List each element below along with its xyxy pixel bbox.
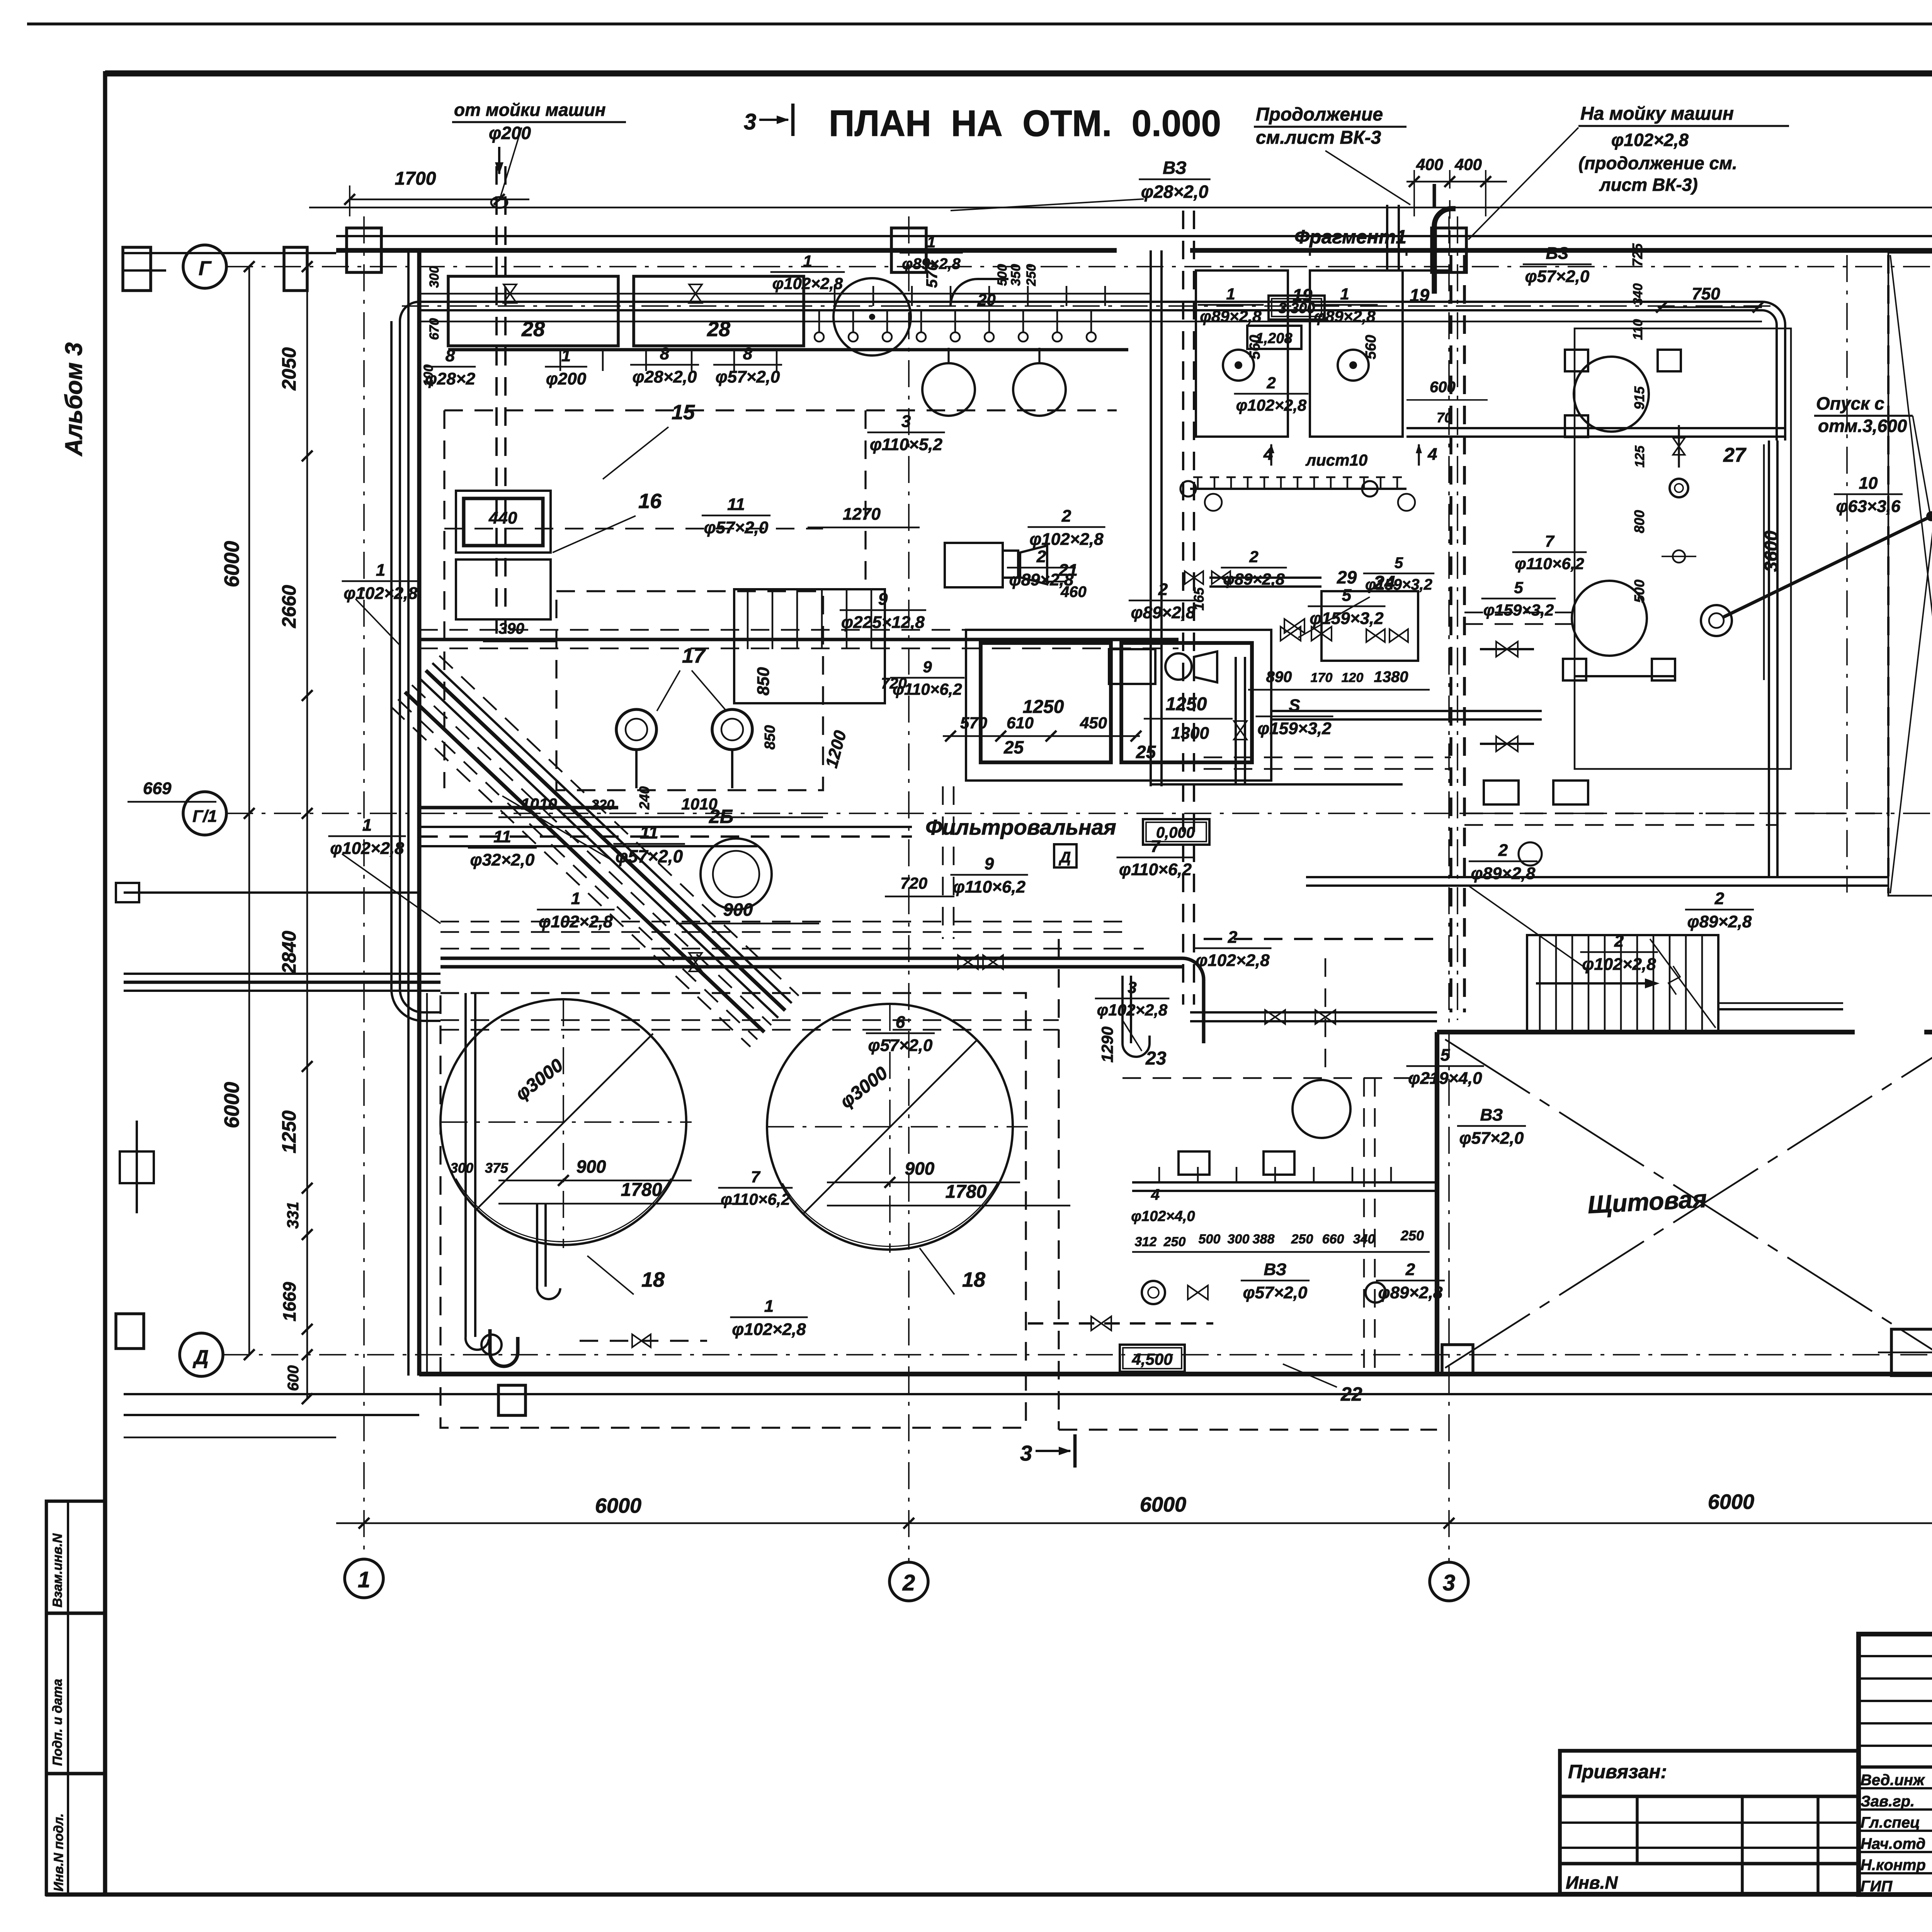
pipe left elbow down (400, 302, 419, 425)
svg-text:388: 388 (1253, 1232, 1275, 1247)
gate band X (1890, 255, 1932, 893)
fragment trench dashed pair (1449, 255, 1452, 1012)
shchitovaya X diagonal b (1445, 1039, 1932, 1368)
vertical drop x4600 (1768, 440, 1770, 877)
tank 18 right circle (767, 1004, 1013, 1250)
vessel pair below pipe (922, 363, 975, 416)
hook row under pipe (818, 310, 820, 332)
air vessel circle top (833, 278, 911, 355)
svg-text:5: 5 (1514, 578, 1523, 597)
svg-text:7: 7 (1545, 532, 1554, 550)
mid vertical pipes pair a (1150, 250, 1152, 786)
svg-text:1: 1 (571, 889, 580, 908)
title block left rows (1859, 1655, 1932, 1657)
tank 18 left centerlines (440, 1121, 692, 1123)
svg-text:6: 6 (896, 1013, 905, 1032)
svg-text:2: 2 (1228, 928, 1238, 947)
pipe drop left vertical (464, 993, 467, 1337)
svg-text:4: 4 (1427, 445, 1437, 464)
pipe run y2270 right (1306, 876, 1888, 878)
svg-text:25: 25 (1003, 737, 1024, 757)
svg-text:Взам.инв.N: Взам.инв.N (50, 1533, 65, 1607)
drain circle 17 b (712, 709, 752, 750)
svg-text:Инв.N подл.: Инв.N подл. (51, 1813, 66, 1891)
main frame top thick (105, 70, 1932, 77)
svg-text:φ89×2,8: φ89×2,8 (902, 255, 961, 272)
boxed 0.000 mark (1143, 819, 1209, 845)
valve row right of filter (1185, 571, 1203, 584)
dashed runs above tanks extra (440, 921, 1122, 923)
pipe run above tanks (440, 957, 1182, 960)
tank room dashed boundary (440, 993, 1026, 1428)
svg-text:φ110×6,2: φ110×6,2 (1119, 860, 1192, 879)
svg-text:φ89×2,8: φ89×2,8 (1223, 570, 1285, 588)
thick diagonal pipe (1723, 516, 1931, 617)
svg-text:6000: 6000 (595, 1494, 641, 1517)
svg-text:2Б: 2Б (709, 806, 733, 827)
svg-text:φ102×2,8: φ102×2,8 (772, 274, 843, 293)
small circles bottom pipes (1142, 1281, 1165, 1304)
equip box lower (456, 560, 551, 619)
svg-text:669: 669 (143, 779, 172, 798)
svg-text:15: 15 (672, 401, 695, 424)
stair diagonal cut (1650, 939, 1716, 1028)
mid area dashes x2440 (942, 786, 944, 939)
svg-text:лист10: лист10 (1305, 451, 1367, 469)
svg-text:Г/1: Г/1 (192, 807, 217, 826)
svg-text:400: 400 (1416, 155, 1443, 173)
svg-text:19: 19 (1410, 285, 1430, 305)
svg-text:1270: 1270 (843, 505, 881, 524)
gate band dashed edge (1887, 255, 1889, 893)
valve bottom tanks (1091, 1316, 1111, 1330)
svg-text:Вед.инж: Вед.инж (1861, 1772, 1925, 1789)
arrow down phi200 (498, 147, 500, 174)
svg-text:Подп. и дата: Подп. и дата (50, 1679, 65, 1766)
svg-text:2: 2 (1405, 1260, 1415, 1279)
left entry pipe stub rects (116, 883, 139, 902)
svg-text:240: 240 (636, 786, 652, 810)
column pier 1 top (347, 228, 381, 272)
filter cell a (981, 643, 1111, 762)
pipes below G1 feeding bundle (419, 826, 912, 828)
svg-text:300: 300 (450, 1160, 473, 1176)
privyazan box (1560, 1751, 1859, 1894)
bottom outside tick lines (124, 1437, 336, 1439)
svg-text:450: 450 (1080, 714, 1107, 732)
room 15 dashed boundary (444, 409, 1117, 411)
svg-text:φ110×5,2: φ110×5,2 (870, 435, 942, 454)
long dashed pipe run y1650 (419, 629, 1179, 631)
svg-text:отм.3,600: отм.3,600 (1818, 416, 1907, 436)
svg-text:φ89×2,8: φ89×2,8 (1009, 570, 1074, 589)
svg-text:φ28×2,0: φ28×2,0 (633, 367, 697, 386)
svg-text:φ63×3,6: φ63×3,6 (1836, 497, 1901, 516)
column pier 3 top (1432, 228, 1466, 272)
bottom pipe run to shchitovaya (1132, 1181, 1437, 1184)
svg-text:3: 3 (1443, 1570, 1455, 1595)
svg-text:1: 1 (376, 561, 385, 580)
svg-text:φ159×3,2: φ159×3,2 (1257, 719, 1332, 738)
axis circle D (180, 1333, 223, 1376)
stair treads (1539, 935, 1541, 1032)
bottom dimension line 6000x3 (336, 1522, 1932, 1524)
svg-text:6000: 6000 (1708, 1490, 1754, 1514)
svg-text:220: 220 (591, 797, 614, 813)
svg-text:2660: 2660 (278, 585, 300, 628)
svg-text:350: 350 (1009, 264, 1023, 286)
svg-text:φ200: φ200 (489, 123, 531, 143)
tank diagonal dim left (477, 1034, 653, 1209)
svg-text:5: 5 (1342, 586, 1352, 605)
svg-text:2: 2 (1158, 580, 1168, 599)
svg-text:φ159×3,2: φ159×3,2 (1483, 601, 1554, 619)
unit 19 box b (1310, 270, 1403, 437)
main frame left (103, 71, 107, 1896)
svg-text:Инв.N: Инв.N (1566, 1872, 1618, 1893)
bottom wall thick (419, 1372, 1932, 1376)
column mark top b (284, 247, 307, 291)
svg-text:φ200: φ200 (546, 369, 587, 388)
drain circle 17 a (616, 709, 656, 750)
trench center dashdot (1457, 216, 1458, 1020)
shchitovaya walls (1435, 1032, 1439, 1374)
svg-text:ВЗ: ВЗ (1480, 1105, 1503, 1124)
svg-text:20: 20 (977, 291, 996, 309)
svg-text:11: 11 (640, 822, 658, 842)
svg-text:390: 390 (498, 620, 524, 637)
28 box a (448, 276, 618, 346)
left dimension chain outer 6000 (248, 267, 250, 1355)
svg-text:φ102×2,8: φ102×2,8 (1236, 396, 1307, 414)
svg-text:850: 850 (762, 725, 778, 750)
svg-text:φ57×2,0: φ57×2,0 (716, 367, 780, 386)
svg-text:1669: 1669 (279, 1282, 299, 1321)
comb small circles (1205, 494, 1222, 511)
svg-text:500: 500 (1631, 580, 1647, 603)
svg-text:Г: Г (199, 257, 212, 280)
svg-text:4: 4 (1151, 1186, 1160, 1203)
upper band extra line (419, 293, 1151, 295)
unit 19 box a (1196, 270, 1288, 437)
filter block outer (966, 630, 1271, 781)
svg-text:1780: 1780 (946, 1182, 987, 1202)
valve on pipe b (689, 284, 702, 303)
svg-text:φ89×2,8: φ89×2,8 (1131, 603, 1196, 622)
svg-text:2: 2 (1061, 507, 1071, 526)
svg-text:6000: 6000 (220, 541, 243, 587)
svg-text:1250: 1250 (1023, 697, 1064, 717)
axis circle 1 (345, 1559, 383, 1598)
top entry pipe at left (124, 269, 166, 272)
svg-text:6000: 6000 (220, 1082, 243, 1128)
lower right pump block 29 (1321, 591, 1418, 661)
equip 440 box upper (456, 491, 551, 553)
svg-text:1: 1 (927, 234, 935, 251)
svg-text:ГИП: ГИП (1861, 1878, 1893, 1895)
svg-text:300: 300 (1228, 1232, 1250, 1247)
G1 wall stub (419, 806, 618, 810)
dashed horizontals center right (1204, 757, 1451, 759)
small eq rects right center (1484, 781, 1519, 804)
svg-text:ВЗ: ВЗ (1264, 1260, 1287, 1279)
svg-text:φ89×2,8: φ89×2,8 (1200, 307, 1262, 325)
upper thin band line (309, 207, 1932, 209)
svg-text:1: 1 (803, 252, 812, 270)
svg-text:120: 120 (1342, 670, 1364, 685)
pipe run y2430 right (1204, 938, 1437, 940)
valve pair center (1281, 627, 1301, 641)
main top pipe double (419, 301, 1762, 303)
left wall inner line lower (426, 993, 428, 1374)
svg-text:φ57×2,0: φ57×2,0 (1525, 267, 1590, 286)
svg-text:10: 10 (1859, 474, 1878, 493)
svg-text:18: 18 (641, 1268, 665, 1291)
valves under tanks (632, 1334, 651, 1347)
valve on pipe a (503, 284, 517, 303)
svg-text:1: 1 (1226, 285, 1235, 303)
left entry pipe triple (124, 973, 440, 975)
svg-text:725: 725 (1629, 243, 1645, 267)
tank room thick U elbow (490, 1329, 518, 1366)
svg-text:Альбом 3: Альбом 3 (61, 342, 87, 457)
svg-text:φ57×2,0: φ57×2,0 (704, 518, 769, 537)
svg-text:22: 22 (1340, 1383, 1362, 1405)
pipe pair right of filter (1271, 710, 1542, 712)
svg-text:ВЗ: ВЗ (1546, 244, 1569, 263)
svg-text:1250: 1250 (278, 1111, 300, 1153)
svg-text:1,208: 1,208 (1255, 330, 1293, 347)
svg-text:φ102×2,8: φ102×2,8 (344, 584, 418, 603)
svg-text:φ89×2,8: φ89×2,8 (1471, 864, 1536, 883)
stair arrow (1536, 982, 1654, 985)
pipe stubs under 28 band 2 (834, 286, 836, 306)
svg-text:9: 9 (878, 590, 888, 609)
svg-text:4,500: 4,500 (1131, 1350, 1172, 1368)
boxed 3300 (1269, 296, 1325, 320)
svg-text:3: 3 (1020, 1441, 1032, 1465)
pump row bottom (1179, 1151, 1209, 1175)
svg-text:φ57×2,0: φ57×2,0 (1243, 1283, 1308, 1302)
svg-text:720: 720 (881, 675, 907, 692)
left wall double (407, 250, 410, 1376)
phi200 pipe vertical dashed (495, 166, 498, 634)
svg-text:720: 720 (900, 874, 927, 892)
gate band rect (1888, 253, 1932, 896)
svg-text:18: 18 (962, 1268, 985, 1291)
thick elbow pipe in duct (1434, 209, 1456, 294)
axis circle G (183, 245, 226, 288)
svg-text:φ102×2,8: φ102×2,8 (330, 839, 404, 858)
shchitovaya X diagonal a (1445, 1039, 1932, 1368)
svg-text:250: 250 (1024, 264, 1039, 286)
svg-text:1: 1 (1340, 285, 1349, 303)
unit27 tank bottom (1572, 581, 1647, 656)
svg-text:1010: 1010 (521, 795, 557, 813)
svg-text:φ32×2,0: φ32×2,0 (470, 850, 535, 869)
svg-text:2: 2 (1249, 548, 1258, 566)
28 box b (634, 276, 804, 346)
svg-text:300: 300 (427, 266, 442, 288)
left outside flange (120, 1151, 154, 1183)
svg-text:Нач.отд: Нач.отд (1861, 1835, 1925, 1852)
svg-text:16: 16 (638, 490, 662, 513)
svg-text:6000: 6000 (1140, 1493, 1186, 1516)
axis circle 2 (889, 1562, 928, 1601)
svg-text:ПЛАН НА ОТМ. 0.000: ПЛАН НА ОТМ. 0.000 (829, 103, 1221, 144)
svg-text:660: 660 (1322, 1232, 1344, 1247)
svg-text:Н.контр: Н.контр (1861, 1857, 1926, 1874)
svg-text:φ57×2,0: φ57×2,0 (1459, 1129, 1524, 1148)
shchitovaya corner column (1442, 1345, 1473, 1374)
circulation pipes right (1406, 427, 1785, 429)
duct entry stub (1433, 184, 1436, 207)
svg-text:φ110×6,2: φ110×6,2 (721, 1190, 790, 1208)
svg-text:23: 23 (1145, 1048, 1167, 1069)
svg-text:Д: Д (1059, 849, 1071, 866)
axis row G line (226, 266, 1932, 267)
axis circle G1 (183, 792, 226, 835)
vertical pipe pair x3210 (1235, 657, 1237, 784)
column mark bottom b (498, 1385, 526, 1415)
svg-text:915: 915 (1631, 386, 1647, 410)
svg-text:φ102×2,8: φ102×2,8 (1582, 955, 1656, 974)
svg-text:1780: 1780 (621, 1180, 662, 1200)
dashdot vertical x4780 (1846, 255, 1848, 893)
boxed 4500 (1120, 1345, 1185, 1372)
stair well (1527, 935, 1718, 1032)
svg-text:3: 3 (901, 412, 911, 431)
svg-text:850: 850 (754, 667, 773, 696)
svg-text:2: 2 (1714, 889, 1725, 908)
svg-text:1: 1 (362, 816, 372, 835)
svg-text:29: 29 (1337, 567, 1357, 587)
small flange circles mid (1180, 481, 1196, 497)
svg-text:φ102×4,0: φ102×4,0 (1131, 1208, 1195, 1225)
svg-text:φ102×2,8: φ102×2,8 (1196, 951, 1270, 970)
pipe drop center low (1121, 976, 1124, 1043)
svg-text:2840: 2840 (278, 931, 300, 974)
svg-text:φ89×2,8: φ89×2,8 (1314, 307, 1376, 325)
axis row D line (223, 1354, 1932, 1355)
title block outer frame (1859, 1634, 1932, 1895)
manifold comb 4-list10 (1190, 488, 1406, 490)
top center U duct (1386, 205, 1388, 270)
right wall lower segment column (1891, 1329, 1932, 1376)
column pier 2 top (891, 228, 926, 272)
svg-text:900: 900 (905, 1158, 935, 1179)
boxed 1200 (1247, 326, 1301, 349)
axis column line 3 (1448, 216, 1450, 1562)
dashed run above tanks (440, 948, 1144, 950)
svg-text:Гл.спец: Гл.спец (1861, 1814, 1920, 1831)
svg-text:5: 5 (1395, 554, 1403, 571)
svg-text:560: 560 (1363, 335, 1379, 359)
svg-text:2: 2 (1266, 374, 1276, 392)
pipe elbow down right (1762, 302, 1785, 440)
svg-text:Зав.гр.: Зав.гр. (1861, 1793, 1915, 1810)
svg-text:На мойку машин: На мойку машин (1580, 104, 1734, 124)
horizontal y2030 (1151, 783, 1403, 786)
svg-text:600: 600 (1430, 379, 1456, 396)
svg-text:см.лист ВК-3: см.лист ВК-3 (1256, 128, 1381, 148)
svg-text:φ110×6,2: φ110×6,2 (953, 878, 1026, 896)
unit27 trench link dashes (1464, 612, 1575, 614)
svg-text:φ102×2,8: φ102×2,8 (1097, 1001, 1168, 1019)
dashed room 17 (556, 591, 823, 790)
svg-text:9: 9 (923, 658, 932, 676)
svg-text:500: 500 (995, 264, 1010, 286)
svg-text:7: 7 (751, 1168, 760, 1186)
svg-text:1: 1 (358, 1567, 370, 1592)
svg-text:φ102×2,8: φ102×2,8 (1029, 530, 1104, 549)
left dimension chain inner (306, 267, 308, 1399)
double circle diag end (1701, 605, 1732, 636)
axis column line 1 (363, 216, 365, 1559)
lower left pipe elbows (400, 989, 440, 1012)
svg-text:φ110×6,2: φ110×6,2 (1515, 554, 1584, 573)
svg-text:2: 2 (1036, 547, 1046, 566)
svg-text:ВЗ: ВЗ (1163, 158, 1187, 178)
extra dashed verticals left of shchitovaya (1363, 1078, 1365, 1374)
valve small top right (1673, 438, 1685, 455)
left outer stub lines (124, 252, 336, 254)
svg-text:250: 250 (1400, 1228, 1424, 1243)
dashed horizontal room16 (444, 528, 823, 530)
bottom outer line 2 (124, 1414, 419, 1416)
svg-text:400: 400 (1454, 155, 1482, 173)
svg-text:5: 5 (1440, 1046, 1450, 1065)
svg-text:φ57×2,0: φ57×2,0 (868, 1036, 933, 1055)
svg-text:Продолжение: Продолжение (1256, 104, 1383, 125)
svg-text:375: 375 (485, 1160, 509, 1176)
page top rule (27, 22, 1932, 26)
phi200 pipe cap ellipse (491, 197, 507, 208)
svg-text:440: 440 (488, 509, 517, 527)
svg-text:600: 600 (285, 1365, 302, 1391)
balcony line right of stair (1718, 1008, 1843, 1010)
tank 18 right centerlines (767, 1126, 1028, 1128)
svg-text:8: 8 (660, 344, 670, 363)
svg-text:2050: 2050 (278, 347, 300, 391)
dashed boundary right of tanks (1058, 939, 1060, 1430)
svg-text:φ219×4,0: φ219×4,0 (1408, 1069, 1482, 1088)
svg-text:φ225×12,8: φ225×12,8 (841, 613, 925, 632)
svg-text:φ102×2,8: φ102×2,8 (1611, 130, 1689, 150)
svg-text:11: 11 (727, 495, 745, 514)
wall line under 28 boxes (448, 348, 1128, 352)
svg-text:170: 170 (1311, 670, 1333, 685)
svg-text:340: 340 (1631, 283, 1645, 305)
svg-text:500: 500 (1199, 1232, 1221, 1247)
column mark top a (123, 247, 151, 291)
dashed L low (1122, 1077, 1437, 1079)
drain circle 2B (701, 838, 772, 910)
svg-text:1300: 1300 (1171, 724, 1209, 743)
svg-text:1700: 1700 (395, 168, 436, 189)
left margin stamp strip (46, 1501, 105, 1895)
svg-text:900: 900 (577, 1156, 606, 1177)
svg-text:750: 750 (1692, 284, 1720, 303)
svg-text:(продолжение см.: (продолжение см. (1578, 153, 1737, 173)
svg-text:27: 27 (1723, 444, 1747, 466)
lower right pipes (1209, 577, 1321, 579)
tank 18 left circle (440, 999, 686, 1245)
lower pipe drop x1390 (536, 1204, 538, 1287)
svg-text:890: 890 (1266, 668, 1292, 685)
svg-text:8: 8 (743, 344, 753, 363)
svg-text:от мойки машин: от мойки машин (454, 100, 606, 120)
